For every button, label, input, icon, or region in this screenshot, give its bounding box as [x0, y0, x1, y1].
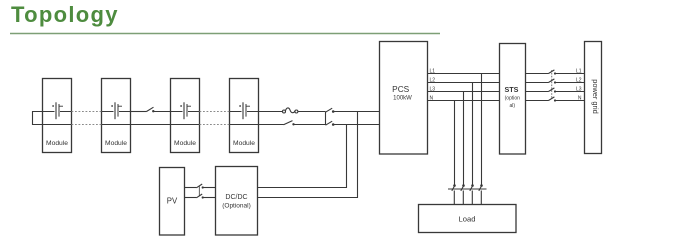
svg-text:DC/DC: DC/DC — [225, 194, 247, 201]
wire top bus through M4 — [230, 111, 283, 113]
battery B3 — [180, 102, 191, 119]
svg-text:power grid: power grid — [591, 79, 600, 114]
Load box — [419, 205, 517, 233]
svg-text:L2: L2 — [430, 77, 436, 83]
grid switch SW-L2 — [526, 79, 585, 84]
switch S1 — [147, 107, 155, 112]
wire top bus M2 to switch S1 — [131, 111, 147, 113]
switch S2 — [284, 121, 295, 126]
svg-text:Module: Module — [105, 140, 127, 147]
wire L1 PCS to STS — [428, 73, 500, 75]
wire dotted M1-M2 bottom — [72, 124, 102, 126]
PCS U1 box — [380, 42, 428, 155]
wire breaker to switch S3 — [298, 111, 325, 113]
wire top bus through M3 — [171, 111, 200, 113]
grid switch link — [551, 70, 553, 98]
svg-text:al): al) — [510, 103, 516, 109]
svg-text:(option: (option — [505, 96, 521, 102]
svg-text:Topology: Topology — [11, 2, 119, 27]
wire left loop — [33, 112, 43, 125]
svg-text:Load: Load — [459, 215, 476, 224]
svg-text:PCS: PCS — [392, 84, 410, 94]
wire bottom bus through M1 — [43, 124, 72, 126]
svg-text:Module: Module — [174, 140, 196, 147]
power grid box — [585, 42, 602, 154]
svg-text:N: N — [578, 95, 582, 101]
grid switch SW-N — [526, 97, 585, 102]
module M2 box — [102, 79, 131, 153]
module M4 box — [230, 79, 259, 153]
svg-text:Module: Module — [233, 140, 255, 147]
battery B1 — [52, 102, 63, 119]
svg-text:100kW: 100kW — [393, 96, 412, 102]
wire tap L2 down — [472, 83, 474, 186]
green rule under title — [10, 33, 440, 35]
grid switch SW-L3 — [526, 88, 585, 93]
svg-text:L3: L3 — [430, 86, 436, 92]
wire N PCS to STS — [428, 100, 500, 102]
svg-text:N: N — [430, 95, 434, 101]
wire bottom bus M2 to M3 — [102, 124, 200, 126]
module M3 box — [171, 79, 200, 153]
wire S3 to PCS top — [334, 111, 380, 113]
wire DCDC upper to bottom bus — [258, 125, 347, 188]
svg-text:STS: STS — [505, 85, 519, 94]
wire bottom bus M4 to switch S2 — [230, 124, 284, 126]
svg-text:L2: L2 — [576, 77, 582, 83]
battery B4 — [239, 102, 250, 119]
svg-text:L3: L3 — [576, 86, 582, 92]
wire dotted M3-M4 top — [200, 111, 230, 113]
DC/DC box — [216, 167, 258, 236]
svg-text:PV: PV — [167, 197, 178, 206]
wire S3 to PCS bottom — [334, 124, 380, 126]
PV-DCDC switch S4 two-pole — [185, 184, 216, 199]
grid switch SW-L1 — [526, 70, 585, 75]
module M1 box — [43, 79, 72, 153]
wire L2 PCS to STS — [428, 82, 500, 84]
wire L3 PCS to STS — [428, 91, 500, 93]
svg-text:L1: L1 — [430, 68, 436, 74]
breaker F1 — [283, 108, 298, 113]
battery B2 — [111, 102, 122, 119]
wire S2 to S3 bottom — [294, 124, 326, 126]
load breaker Q1 — [448, 184, 487, 204]
switch S3 two-pole — [326, 108, 335, 126]
PV box — [160, 168, 185, 236]
STS U2 box — [500, 44, 526, 155]
wire top bus through M2 — [102, 111, 131, 113]
wire top bus through M1 — [43, 111, 72, 113]
svg-text:Module: Module — [46, 140, 68, 147]
wire switch S1 to M3 — [154, 111, 171, 113]
svg-text:L1: L1 — [576, 68, 582, 74]
wire dotted M1-M2 top — [72, 111, 102, 113]
wire dotted M3-M4 bottom — [200, 124, 230, 126]
wire tap L1 down — [481, 74, 483, 186]
svg-text:(Optional): (Optional) — [222, 203, 251, 210]
wire tap N down — [454, 101, 456, 186]
wire tap L3 down — [463, 92, 465, 186]
wire DCDC lower to top bus — [258, 112, 358, 198]
